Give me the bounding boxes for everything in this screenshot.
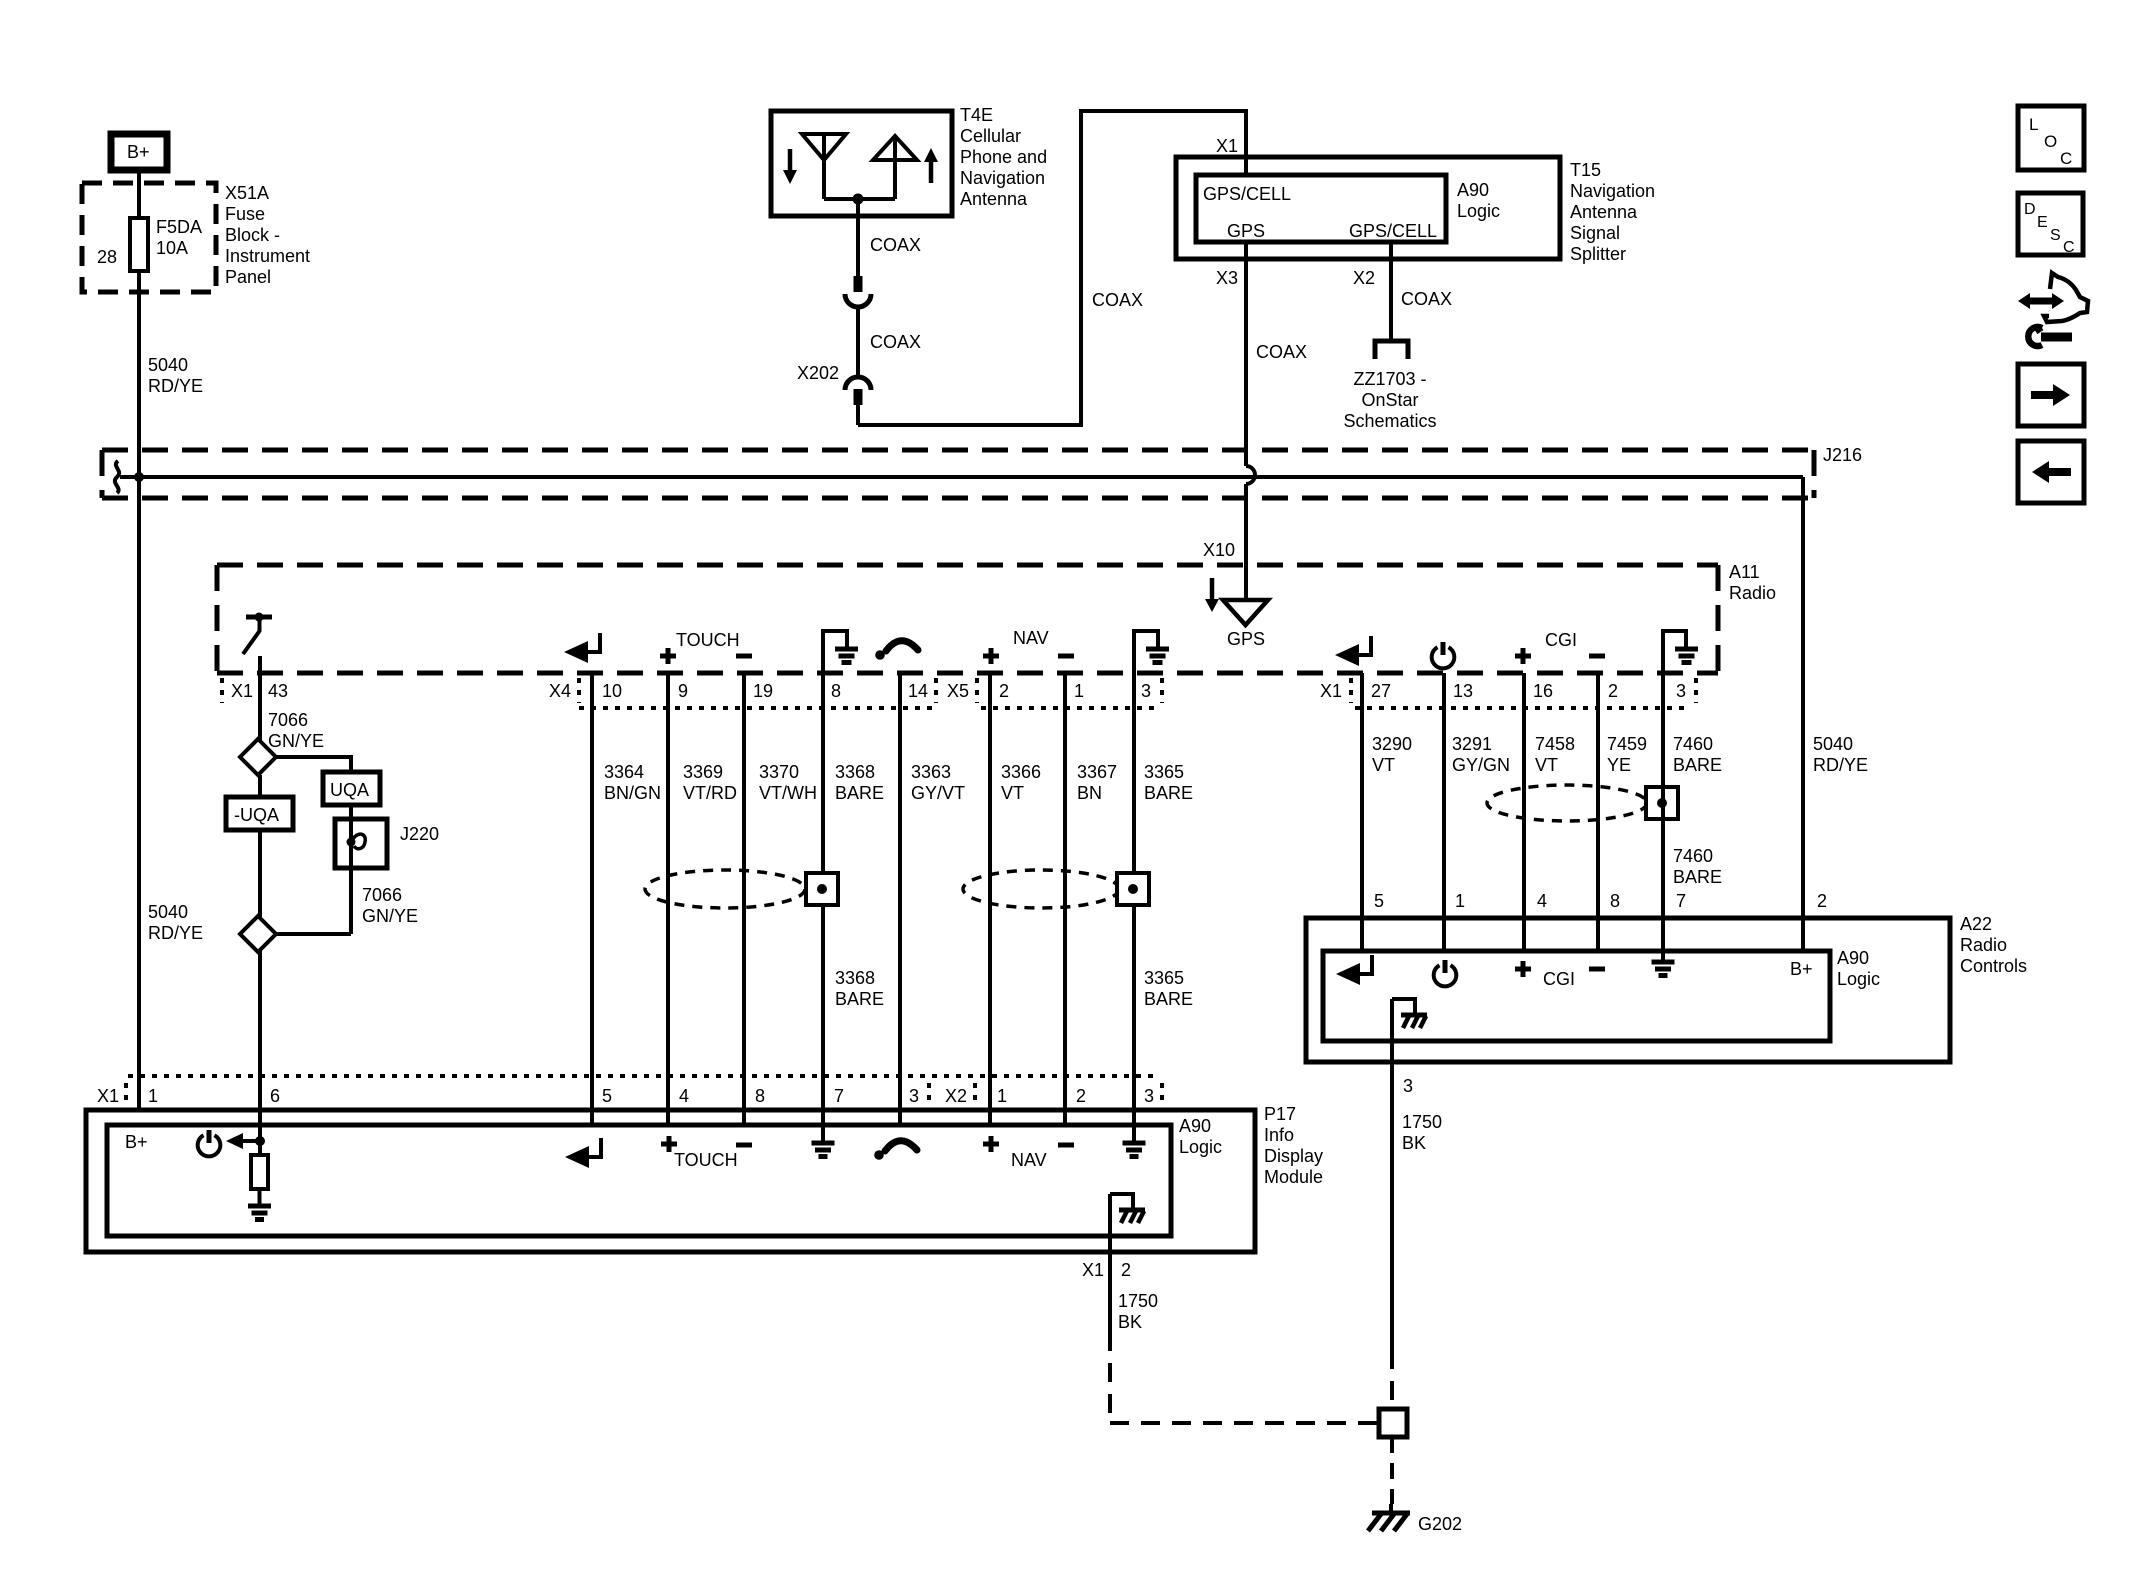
svg-text:YE: YE	[1607, 755, 1631, 775]
svg-text:13: 13	[1453, 681, 1473, 701]
svg-text:VT: VT	[1535, 755, 1558, 775]
svg-text:Panel: Panel	[225, 267, 271, 287]
svg-text:Antenna: Antenna	[1570, 202, 1638, 222]
svg-text:X3: X3	[1216, 268, 1238, 288]
svg-text:GPS/CELL: GPS/CELL	[1349, 221, 1437, 241]
svg-text:B+: B+	[1790, 959, 1813, 979]
svg-text:3363: 3363	[911, 762, 951, 782]
svg-text:Controls: Controls	[1960, 956, 2027, 976]
svg-text:NAV: NAV	[1013, 628, 1049, 648]
svg-text:2: 2	[1608, 681, 1618, 701]
svg-text:X1: X1	[1320, 681, 1342, 701]
svg-text:X1: X1	[231, 681, 253, 701]
svg-text:2: 2	[1121, 1260, 1131, 1280]
svg-text:B+: B+	[125, 1132, 148, 1152]
svg-text:3291: 3291	[1452, 734, 1492, 754]
svg-text:Logic: Logic	[1179, 1137, 1222, 1157]
svg-text:3364: 3364	[604, 762, 644, 782]
svg-text:2: 2	[1076, 1086, 1086, 1106]
svg-text:BARE: BARE	[1673, 867, 1722, 887]
svg-text:3: 3	[1144, 1086, 1154, 1106]
svg-text:7: 7	[1676, 891, 1686, 911]
svg-text:NAV: NAV	[1011, 1150, 1047, 1170]
svg-text:J220: J220	[400, 824, 439, 844]
svg-text:COAX: COAX	[1256, 342, 1307, 362]
svg-text:GY/GN: GY/GN	[1452, 755, 1510, 775]
svg-text:COAX: COAX	[870, 332, 921, 352]
svg-text:3370: 3370	[759, 762, 799, 782]
svg-text:X1: X1	[1082, 1260, 1104, 1280]
svg-text:X10: X10	[1203, 540, 1235, 560]
svg-text:TOUCH: TOUCH	[674, 1150, 738, 1170]
svg-text:6: 6	[270, 1086, 280, 1106]
svg-text:P17: P17	[1264, 1104, 1296, 1124]
svg-text:A22: A22	[1960, 914, 1992, 934]
svg-text:X1: X1	[1216, 136, 1238, 156]
svg-text:10A: 10A	[156, 238, 188, 258]
svg-text:14: 14	[908, 681, 928, 701]
svg-text:8: 8	[1610, 891, 1620, 911]
svg-text:CGI: CGI	[1543, 969, 1575, 989]
svg-text:7066: 7066	[362, 885, 402, 905]
svg-text:1750: 1750	[1118, 1291, 1158, 1311]
svg-text:3367: 3367	[1077, 762, 1117, 782]
svg-text:ZZ1703 -: ZZ1703 -	[1353, 369, 1426, 389]
svg-text:C: C	[2060, 149, 2072, 168]
svg-text:Radio: Radio	[1729, 583, 1776, 603]
svg-text:X202: X202	[797, 363, 839, 383]
svg-text:O: O	[2044, 132, 2057, 151]
svg-text:BK: BK	[1402, 1133, 1426, 1153]
svg-text:Block -: Block -	[225, 225, 280, 245]
svg-text:D: D	[2024, 201, 2036, 218]
svg-text:BARE: BARE	[835, 783, 884, 803]
svg-text:BARE: BARE	[835, 989, 884, 1009]
svg-text:1: 1	[1074, 681, 1084, 701]
svg-text:S: S	[2050, 227, 2061, 244]
svg-text:Antenna: Antenna	[960, 189, 1028, 209]
svg-text:3366: 3366	[1001, 762, 1041, 782]
svg-text:COAX: COAX	[1401, 289, 1452, 309]
svg-text:VT: VT	[1001, 783, 1024, 803]
svg-text:3369: 3369	[683, 762, 723, 782]
svg-text:Cellular: Cellular	[960, 126, 1021, 146]
svg-text:3: 3	[1676, 681, 1686, 701]
svg-text:3368: 3368	[835, 968, 875, 988]
svg-text:J216: J216	[1823, 445, 1862, 465]
svg-text:F5DA: F5DA	[156, 217, 202, 237]
svg-text:5: 5	[1374, 891, 1384, 911]
svg-text:A11: A11	[1729, 562, 1760, 582]
svg-text:X2: X2	[945, 1086, 967, 1106]
svg-text:Logic: Logic	[1457, 201, 1500, 221]
svg-text:28: 28	[97, 247, 117, 267]
svg-text:8: 8	[831, 681, 841, 701]
svg-text:16: 16	[1533, 681, 1553, 701]
svg-text:Module: Module	[1264, 1167, 1323, 1187]
svg-text:7460: 7460	[1673, 734, 1713, 754]
svg-text:1: 1	[1455, 891, 1465, 911]
svg-text:Instrument: Instrument	[225, 246, 310, 266]
svg-text:3368: 3368	[835, 762, 875, 782]
svg-text:Radio: Radio	[1960, 935, 2007, 955]
svg-text:BN: BN	[1077, 783, 1102, 803]
svg-text:UQA: UQA	[330, 780, 369, 800]
svg-text:Splitter: Splitter	[1570, 244, 1626, 264]
svg-text:VT/WH: VT/WH	[759, 783, 817, 803]
svg-text:8: 8	[755, 1086, 765, 1106]
svg-text:1750: 1750	[1402, 1112, 1442, 1132]
svg-text:VT: VT	[1372, 755, 1395, 775]
svg-text:2: 2	[1817, 891, 1827, 911]
svg-text:-UQA: -UQA	[234, 805, 279, 825]
svg-text:RD/YE: RD/YE	[148, 923, 203, 943]
svg-text:5040: 5040	[1813, 734, 1853, 754]
svg-text:3: 3	[909, 1086, 919, 1106]
svg-text:A90: A90	[1837, 948, 1869, 968]
svg-text:Fuse: Fuse	[225, 204, 265, 224]
svg-text:GN/YE: GN/YE	[362, 906, 418, 926]
svg-text:2: 2	[999, 681, 1009, 701]
svg-text:5040: 5040	[148, 902, 188, 922]
svg-text:RD/YE: RD/YE	[148, 376, 203, 396]
svg-text:5: 5	[602, 1086, 612, 1106]
svg-text:Display: Display	[1264, 1146, 1323, 1166]
svg-text:BK: BK	[1118, 1312, 1142, 1332]
svg-text:C: C	[2063, 239, 2075, 256]
svg-text:X1: X1	[97, 1086, 119, 1106]
svg-text:Signal: Signal	[1570, 223, 1620, 243]
svg-text:L: L	[2029, 115, 2038, 134]
svg-text:COAX: COAX	[870, 235, 921, 255]
svg-text:GPS/CELL: GPS/CELL	[1203, 184, 1291, 204]
svg-text:T4E: T4E	[960, 105, 993, 125]
svg-text:A90: A90	[1179, 1116, 1211, 1136]
svg-text:7066: 7066	[268, 710, 308, 730]
svg-text:T15: T15	[1570, 160, 1601, 180]
svg-text:BARE: BARE	[1144, 989, 1193, 1009]
svg-text:3: 3	[1141, 681, 1151, 701]
svg-text:E: E	[2037, 214, 2048, 231]
svg-text:GN/YE: GN/YE	[268, 731, 324, 751]
svg-text:VT/RD: VT/RD	[683, 783, 737, 803]
svg-text:BARE: BARE	[1673, 755, 1722, 775]
svg-text:RD/YE: RD/YE	[1813, 755, 1868, 775]
svg-text:Logic: Logic	[1837, 969, 1880, 989]
svg-text:3290: 3290	[1372, 734, 1412, 754]
svg-text:5040: 5040	[148, 355, 188, 375]
svg-text:X5: X5	[947, 681, 969, 701]
svg-text:7: 7	[834, 1086, 844, 1106]
svg-text:CGI: CGI	[1545, 630, 1577, 650]
svg-text:19: 19	[753, 681, 773, 701]
svg-text:Info: Info	[1264, 1125, 1294, 1145]
svg-text:1: 1	[148, 1086, 158, 1106]
svg-text:G202: G202	[1418, 1514, 1462, 1534]
svg-text:9: 9	[678, 681, 688, 701]
svg-text:3365: 3365	[1144, 968, 1184, 988]
svg-text:Navigation: Navigation	[1570, 181, 1655, 201]
svg-text:4: 4	[679, 1086, 689, 1106]
svg-text:A90: A90	[1457, 180, 1489, 200]
svg-text:X51A: X51A	[225, 183, 269, 203]
svg-text:3365: 3365	[1144, 762, 1184, 782]
svg-text:GY/VT: GY/VT	[911, 783, 965, 803]
svg-text:GPS: GPS	[1227, 629, 1265, 649]
svg-text:TOUCH: TOUCH	[676, 630, 740, 650]
svg-text:COAX: COAX	[1092, 290, 1143, 310]
svg-text:Navigation: Navigation	[960, 168, 1045, 188]
svg-text:7458: 7458	[1535, 734, 1575, 754]
svg-text:X2: X2	[1353, 268, 1375, 288]
svg-text:Schematics: Schematics	[1343, 411, 1436, 431]
svg-text:7459: 7459	[1607, 734, 1647, 754]
svg-text:7460: 7460	[1673, 846, 1713, 866]
svg-text:B+: B+	[127, 142, 150, 162]
svg-text:43: 43	[268, 681, 288, 701]
svg-text:10: 10	[602, 681, 622, 701]
svg-text:3: 3	[1403, 1076, 1413, 1096]
svg-text:27: 27	[1371, 681, 1391, 701]
svg-text:BN/GN: BN/GN	[604, 783, 661, 803]
svg-text:OnStar: OnStar	[1361, 390, 1418, 410]
svg-text:4: 4	[1537, 891, 1547, 911]
svg-text:X4: X4	[549, 681, 571, 701]
svg-text:BARE: BARE	[1144, 783, 1193, 803]
svg-text:Phone and: Phone and	[960, 147, 1047, 167]
svg-text:1: 1	[997, 1086, 1007, 1106]
svg-text:GPS: GPS	[1227, 221, 1265, 241]
